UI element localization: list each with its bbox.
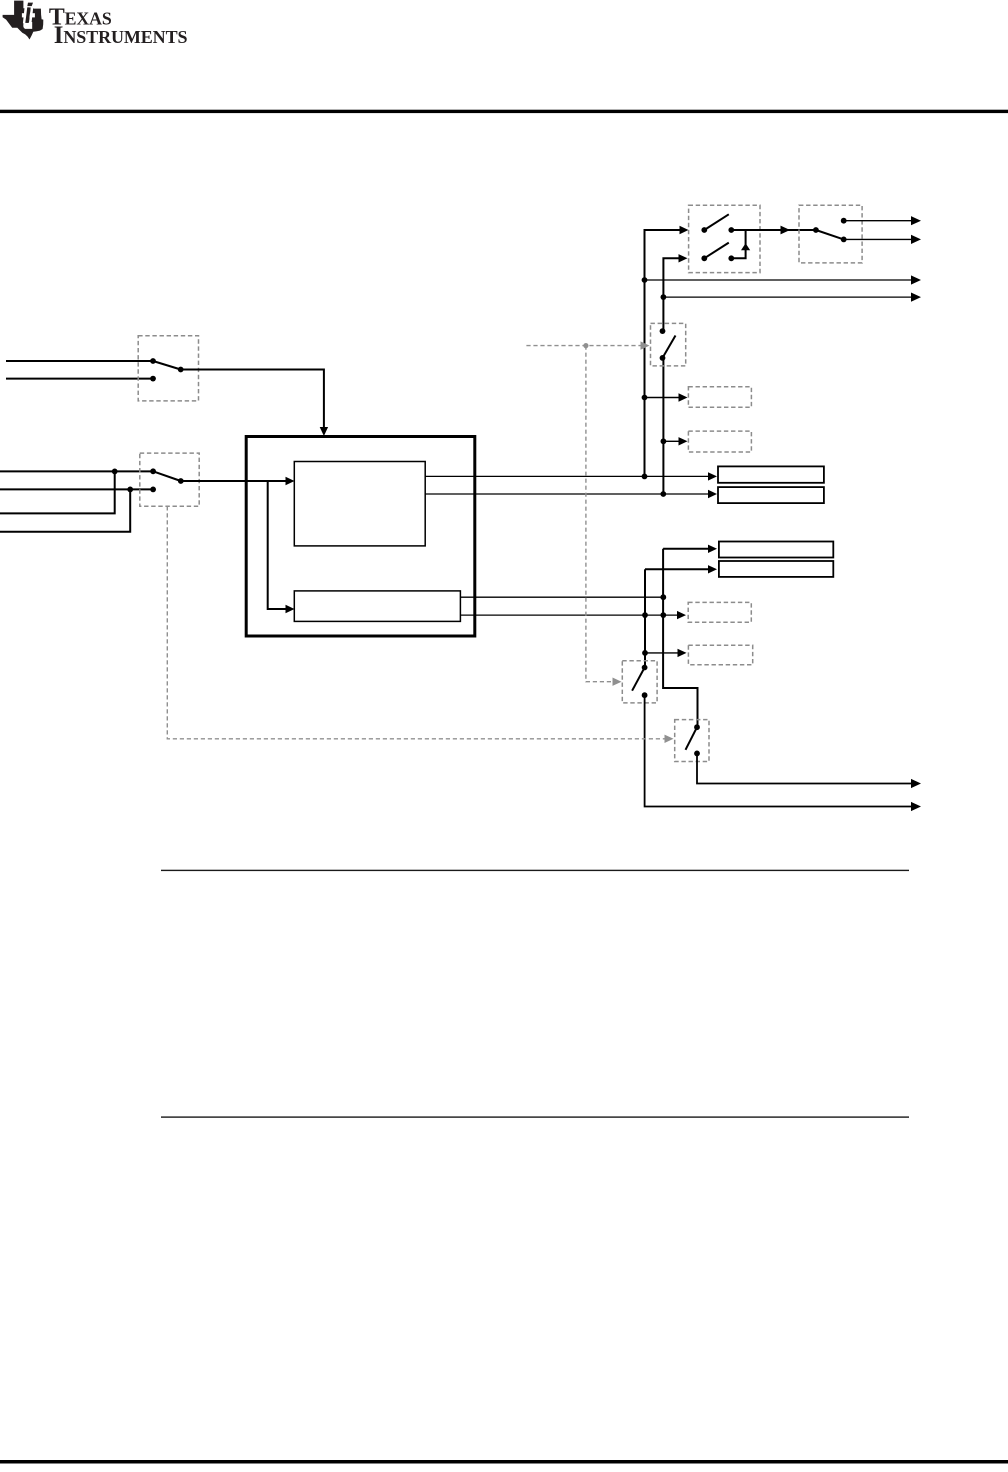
arrow into dashed box F bbox=[678, 649, 687, 657]
ti white carve: right bar bbox=[29, 8, 33, 23]
dashed box E bbox=[688, 602, 751, 622]
switch H dots bbox=[694, 724, 700, 756]
wire bus3 feed to box C bbox=[663, 548, 708, 550]
switch S4 dots bbox=[813, 218, 847, 243]
gray dashed control line 1 horizontal bbox=[526, 345, 640, 347]
wire output y280 bbox=[645, 279, 913, 281]
i slanted stroke bbox=[25, 7, 30, 23]
switch S3 top blade bbox=[704, 214, 729, 230]
inner block 2 bbox=[294, 591, 460, 622]
switch G box (dashed) bbox=[622, 661, 657, 703]
dashed box E2 bbox=[688, 431, 751, 452]
gray dashed control line vertical bbox=[586, 346, 613, 682]
switch S3 box (dashed) bbox=[689, 205, 760, 272]
node bus1 y476 bbox=[642, 474, 648, 480]
switch S4 blade bbox=[816, 230, 844, 239]
arrow into dashed box E2 bbox=[679, 437, 688, 445]
switch S2 box (dashed) bbox=[140, 453, 199, 506]
switch S1 box (dashed) bbox=[138, 336, 198, 401]
wire vertical bus 2 upper bbox=[663, 258, 678, 331]
switch H blade bbox=[686, 727, 698, 750]
box B bbox=[718, 487, 824, 503]
arrow into box C bbox=[708, 545, 717, 553]
gray arrow into switch H bbox=[665, 735, 674, 743]
svg-text:INSTRUMENTS: INSTRUMENTS bbox=[54, 22, 188, 49]
node bus2 y494 bbox=[660, 491, 666, 497]
arrow mid wire S3-S4 bbox=[781, 226, 791, 235]
node bus4 y653 bbox=[642, 650, 648, 656]
wire bus4 vertical bbox=[644, 569, 646, 667]
wire inner block1 output 1 bbox=[425, 475, 708, 477]
arrow into dashed box E1 bbox=[679, 393, 688, 401]
node bus1 y280 bbox=[642, 277, 648, 283]
arrow output y806 bbox=[911, 802, 921, 811]
node junction line3/line5 bbox=[112, 469, 118, 475]
gray arrow into switch G bbox=[613, 678, 622, 686]
wire S4 output 2 bbox=[844, 238, 912, 240]
dashed box E1 bbox=[688, 387, 751, 408]
wire vertical bus 1 bbox=[645, 230, 680, 476]
gray arrow into S5 bbox=[641, 341, 650, 349]
wire input line 6 bbox=[0, 489, 130, 531]
arrow output y280 bbox=[911, 275, 921, 284]
arrow up on branch bbox=[741, 243, 750, 250]
switch G blade bbox=[632, 668, 645, 691]
wire to dashed box E2 bbox=[663, 440, 678, 442]
switch S5 dots bbox=[660, 328, 666, 361]
wire switch G output bbox=[645, 695, 912, 806]
wire to dashed box E1 bbox=[645, 397, 679, 399]
switch S1 contact dots bbox=[150, 358, 184, 381]
wire branch down to inner block 2 bbox=[268, 481, 287, 609]
wire inner block2 output 2 bbox=[460, 614, 677, 616]
node bus2 y441 bbox=[661, 438, 667, 444]
arrow into switch S3 bottom bbox=[679, 254, 688, 262]
wire bus3 vertical bbox=[663, 549, 697, 727]
wire input line 3 bbox=[0, 470, 153, 472]
main block box bbox=[246, 437, 475, 637]
arrow into main block top bbox=[320, 427, 328, 436]
TI logo Texas-state symbol bbox=[3, 1, 44, 40]
switch S5 box (dashed) bbox=[651, 323, 686, 366]
wire inner block2 output 1 bbox=[460, 596, 663, 598]
switch S1 blade bbox=[153, 361, 181, 370]
switch S2 contact dots bbox=[150, 468, 184, 492]
arrow into inner block 1 bbox=[286, 477, 295, 485]
wire to dashed box F bbox=[645, 652, 678, 654]
arrow S4 output 2 bbox=[911, 235, 921, 244]
arrow into box B bbox=[708, 490, 717, 498]
node bus3 y597 bbox=[660, 594, 666, 600]
gray node control junction bbox=[583, 343, 588, 348]
wire bus4 feed to box D bbox=[645, 568, 709, 570]
switch S3 top dots bbox=[701, 227, 734, 233]
footer rule bbox=[0, 1460, 1008, 1464]
box A bbox=[718, 466, 824, 482]
node bus2 y297 bbox=[661, 294, 667, 300]
switch G dots bbox=[642, 665, 648, 699]
inner block 1 bbox=[294, 462, 425, 546]
wire input line 1 (top-left) bbox=[6, 360, 153, 362]
node junction line4/line6 bbox=[127, 487, 133, 493]
arrow into box A bbox=[708, 472, 717, 480]
wire input line 4 bbox=[0, 488, 153, 490]
switch S2 blade bbox=[153, 471, 181, 481]
switch H box (dashed) bbox=[675, 720, 709, 762]
header rule bbox=[0, 110, 1008, 113]
wire S3 to S4 bbox=[731, 229, 816, 231]
ti white carve: crossbar bbox=[22, 13, 35, 17]
node bus1 y397 bbox=[642, 395, 648, 401]
wire input line 2 (top-left) bbox=[6, 378, 153, 380]
ti white carve: left bar bbox=[23, 8, 28, 23]
node bus3 y615 bbox=[660, 612, 666, 618]
arrow into inner block 2 bbox=[286, 605, 295, 613]
node bus4 y615 bbox=[642, 612, 648, 618]
ti white carve: foot bbox=[23, 22, 32, 29]
arrow into switch S3 top bbox=[680, 226, 689, 234]
switch S3 bottom dots bbox=[701, 255, 734, 261]
switch S3 bottom blade bbox=[704, 243, 729, 259]
switch S4 box (dashed) bbox=[799, 205, 862, 263]
wire S3 bottom branch up bbox=[731, 231, 745, 258]
box D bbox=[719, 561, 833, 577]
arrow S4 output 1 bbox=[911, 216, 921, 225]
wire input line 5 bbox=[0, 471, 115, 513]
arrow output y297 bbox=[911, 293, 921, 302]
wire S2 output into main block bbox=[181, 480, 288, 482]
wire switch H output bbox=[697, 753, 912, 783]
wire S1 output to main block bbox=[181, 370, 324, 429]
table rule bottom bbox=[161, 1116, 909, 1117]
i dot bbox=[27, 3, 33, 7]
arrow output y783 bbox=[911, 779, 921, 788]
wire vertical bus 2 lower bbox=[662, 358, 664, 494]
table rule top bbox=[161, 870, 909, 871]
switch S5 blade bbox=[663, 336, 676, 358]
arrow into dashed box E bbox=[677, 611, 686, 619]
wire output y297 bbox=[663, 296, 912, 298]
wire S4 output 1 bbox=[844, 220, 912, 222]
gray dashed control line 2 bbox=[167, 506, 664, 739]
box C bbox=[719, 542, 833, 558]
dashed box F bbox=[688, 645, 752, 665]
arrow into box D bbox=[708, 565, 717, 573]
wire inner block1 output 2 bbox=[425, 493, 708, 495]
